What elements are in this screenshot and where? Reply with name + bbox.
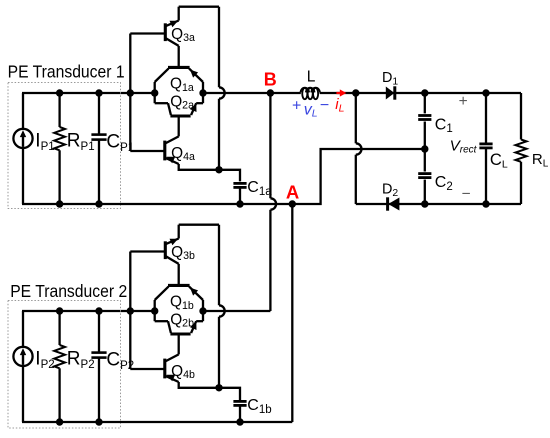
capacitor C_P1 xyxy=(98,93,100,135)
wire: D2 branch horizontal xyxy=(356,203,521,205)
wire: junction to C1a xyxy=(219,170,240,182)
junction Q4b emitter / right vertical xyxy=(215,384,222,391)
wire: rail B to inductor xyxy=(270,92,300,94)
wire: bottom rail (A rail) from transducer 1, corner up, to C1-C2 midpoint xyxy=(22,149,425,204)
current source I_P1 xyxy=(22,93,24,129)
wire: C2 top stub xyxy=(424,149,426,172)
PE Transducer 2 dashed box xyxy=(8,301,121,429)
transistor Q3a xyxy=(164,23,167,41)
wire: CL top stub xyxy=(485,93,487,143)
wire: rail inductor to RL corner xyxy=(320,92,521,94)
capacitor C1 xyxy=(418,114,431,117)
transistor Q1b xyxy=(168,284,190,287)
transistor Q3b xyxy=(164,241,167,259)
junction CL / bottom right rail xyxy=(482,200,489,207)
svg-text:L: L xyxy=(307,69,316,86)
capacitor C1b xyxy=(233,400,246,403)
wire: CL bottom stub xyxy=(485,149,487,204)
wire: junction to C1b xyxy=(219,388,240,402)
resistor R_P1 xyxy=(58,93,60,127)
hop over rail2 xyxy=(219,305,225,316)
wire: D2 branch vertical (lower) xyxy=(355,155,357,204)
wire: C1b to bottom rail2 xyxy=(239,405,241,422)
junction left xyxy=(151,307,158,314)
capacitor C1a xyxy=(233,182,246,185)
junction right xyxy=(199,307,206,314)
transistor Q4a xyxy=(163,141,166,161)
wire: top loop wire b xyxy=(179,224,219,226)
wire: right vertical b (lower) xyxy=(218,317,220,388)
resistor RL xyxy=(520,93,522,140)
capacitor CL xyxy=(479,142,492,145)
hop B vertical over bottom rail xyxy=(270,198,276,209)
transistor Q2a xyxy=(170,114,190,117)
junction C2 / bottom right rail xyxy=(421,200,428,207)
wire: C1a to bottom rail xyxy=(239,187,241,204)
wire: B vertical (upper) xyxy=(269,93,271,198)
junction D1 rail / C1 xyxy=(421,89,428,96)
diode D1 xyxy=(386,87,395,100)
current source I_P2 xyxy=(22,311,24,347)
junction base vertical / rail2 xyxy=(127,307,134,314)
wire: rail from Q1a/Q2a right side to node B xyxy=(203,92,270,94)
i_L current arrow (red) xyxy=(336,92,341,94)
wire: Q3a emitter vertical xyxy=(178,7,180,21)
wire: base vertical (Q3b base to Q4b base) xyxy=(129,252,131,370)
wire: right vertical b (upper) xyxy=(218,225,220,306)
diamond left side wire xyxy=(154,82,156,103)
wire: C1 bottom to midpoint xyxy=(424,122,426,150)
inductor L xyxy=(302,88,307,99)
node A xyxy=(289,200,296,207)
junction C1a / bottom rail xyxy=(236,200,243,207)
wire: top loop wire xyxy=(179,6,219,8)
svg-text:+: + xyxy=(292,97,301,114)
svg-text:B: B xyxy=(264,70,277,90)
wire: Q3b base wire xyxy=(130,250,164,252)
svg-text:PE Transducer 1: PE Transducer 1 xyxy=(8,62,125,82)
wire: Q3a/Q4a base wire lower xyxy=(130,150,164,152)
junction left xyxy=(151,89,158,96)
wire: bottom rail2 to A corner xyxy=(22,421,292,423)
wire: Q4b emitter to junction xyxy=(179,382,219,388)
wire: C2 bottom stub xyxy=(424,180,426,204)
wire: Q4a emitter to junction xyxy=(179,164,219,170)
wire: Q3b collector vertical to Q1b base xyxy=(178,264,180,286)
transistor Q1a xyxy=(168,66,190,69)
wire: B vertical (lower) to Q1b/Q2b rail xyxy=(269,210,271,311)
diamond right side wire xyxy=(202,82,204,103)
svg-text:+: + xyxy=(459,93,468,110)
wire: C1 top stub xyxy=(424,93,426,113)
transistor Q2b xyxy=(170,332,190,335)
hop D2 branch vertical over A branch xyxy=(356,143,362,154)
junction right xyxy=(199,89,206,96)
svg-text:−: − xyxy=(462,186,471,203)
wire: Q3a base wire xyxy=(130,32,164,34)
capacitor C_P2 xyxy=(98,311,100,353)
wire: rail2 right segment to B vertical xyxy=(203,310,270,312)
wire: right vertical (lower) xyxy=(218,99,220,170)
diode D2 xyxy=(388,198,399,211)
junction base vertical / top rail xyxy=(127,89,134,96)
junction C1b / bottom rail2 xyxy=(236,418,243,425)
capacitor C2 xyxy=(418,172,431,175)
wire: Q3a collector vertical to Q1a base xyxy=(178,46,180,68)
transistor Q4b xyxy=(163,359,166,379)
wire: Q3b emitter vertical xyxy=(178,225,180,239)
svg-text:−: − xyxy=(320,97,329,114)
wire: top rail from transducer 1 to Q1a/Q2a left xyxy=(22,92,155,94)
junction rail / D2 branch vertical xyxy=(352,89,359,96)
diamond left side wire xyxy=(154,300,156,321)
wire: D2 branch vertical (upper) xyxy=(355,93,357,143)
wire: A vertical down to transducer 2 bottom rail xyxy=(291,204,293,422)
PE Transducer 1 dashed box xyxy=(8,83,121,209)
resistor R_P2 xyxy=(58,311,60,345)
svg-text:A: A xyxy=(286,182,299,203)
junction Q4a emitter / right vertical xyxy=(215,166,222,173)
wire: rail2 from transducer 2 to Q1b/Q2b left xyxy=(22,310,155,312)
wire: Q2a base vertical to Q4a collector xyxy=(178,116,180,136)
wire: right vertical from top loop (upper) xyxy=(218,7,220,88)
junction C1/C2 midpoint with A branch xyxy=(421,145,428,152)
hop over top rail xyxy=(219,87,225,98)
wire: Q2b base vertical to Q4b collector xyxy=(178,334,180,354)
svg-text:PE Transducer 2: PE Transducer 2 xyxy=(10,281,127,301)
node B xyxy=(267,89,274,96)
diamond right side wire xyxy=(202,300,204,321)
junction top rail / CL xyxy=(482,89,489,96)
wire: base vertical (Q3a base to Q4a base) xyxy=(129,34,131,152)
wire: Q3b/Q4b base wire lower xyxy=(130,368,164,370)
